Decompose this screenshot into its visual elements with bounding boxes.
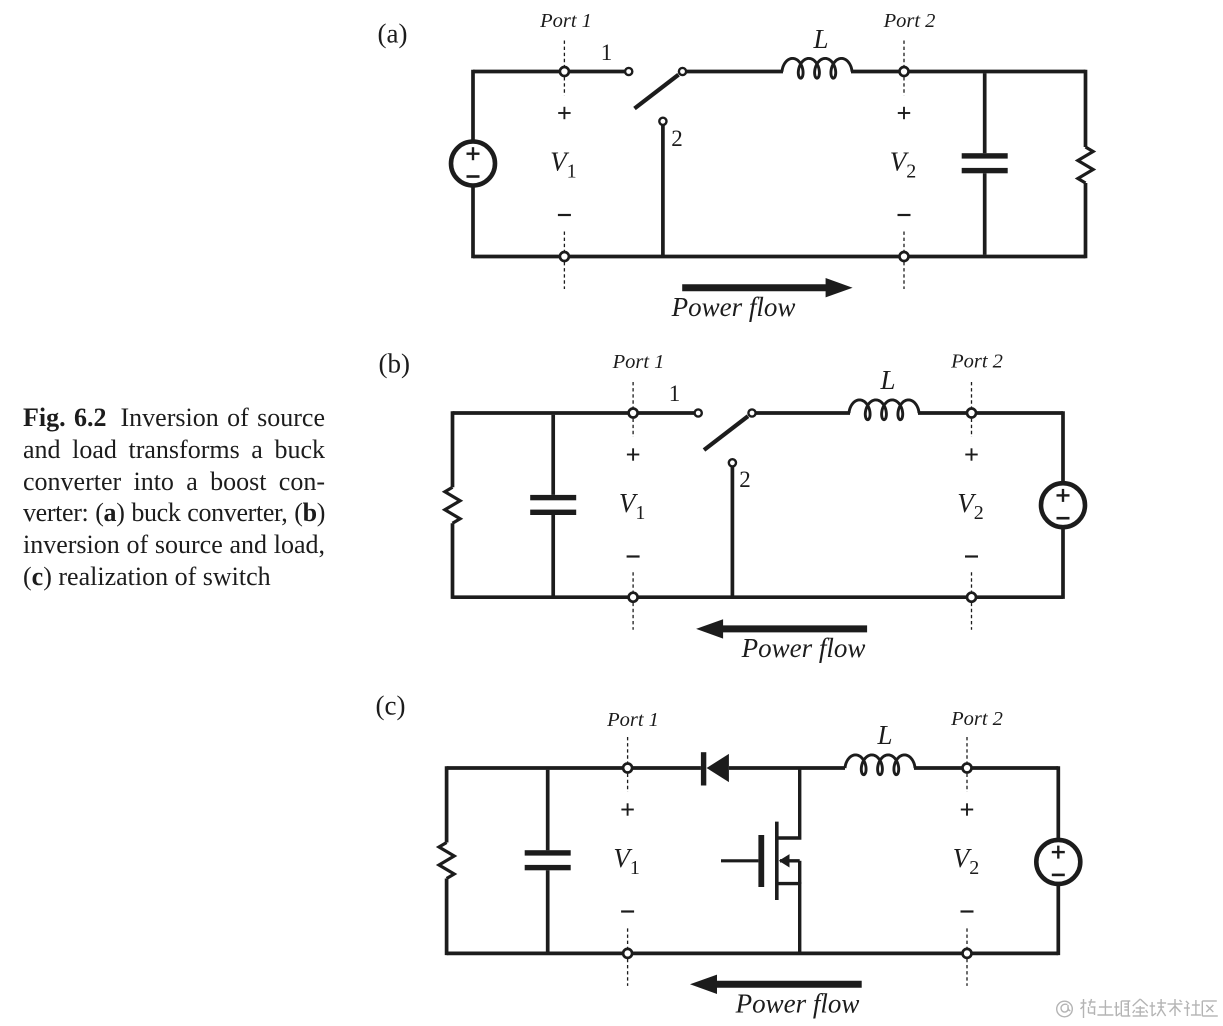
transistor Q MOSFET (circuit c) bbox=[721, 768, 800, 953]
capacitor C (circuit c) bbox=[525, 850, 571, 855]
svg-text:Port 1: Port 1 bbox=[539, 10, 592, 32]
V1 (b) minus bbox=[627, 555, 640, 557]
node Port 2 + terminal (c) bbox=[966, 737, 968, 792]
node Port 1 + terminal (a) bbox=[563, 41, 565, 96]
wire: top rail inductor to load corner (a) bbox=[851, 70, 1086, 74]
capacitor C (circuit a) bbox=[962, 153, 1008, 158]
wire: bottom rail (c) bbox=[447, 952, 1059, 956]
diode D (circuit c) bbox=[701, 752, 706, 785]
wire: capacitor branch upper (a) bbox=[983, 73, 987, 153]
wire: top rail left segment (source to throw-1) bbox=[473, 70, 625, 74]
voltage source V2 (circuit b) bbox=[1041, 483, 1085, 527]
V1 (c) plus bbox=[621, 809, 633, 811]
wire: bottom rail (b) bbox=[453, 595, 1064, 599]
V1 (b) plus bbox=[627, 454, 639, 456]
svg-text:(c): (c) bbox=[376, 691, 406, 721]
wire: right vertical below resistor (a) bbox=[1084, 183, 1088, 258]
svg-text:V1: V1 bbox=[619, 488, 646, 524]
wire: capacitor branch upper (b) bbox=[551, 415, 555, 495]
svg-text:Port 1: Port 1 bbox=[612, 351, 665, 373]
wire: diode to inductor (c) bbox=[729, 766, 845, 770]
svg-text:(a): (a) bbox=[378, 19, 408, 49]
V1 (c) minus bbox=[621, 910, 634, 912]
wire: throw-2 down to bottom rail bbox=[661, 125, 665, 257]
wire: capacitor branch lower (a) bbox=[983, 173, 987, 255]
node Port 2 - terminal (a) bbox=[903, 232, 905, 290]
wire: left vertical above resistor (c) bbox=[445, 766, 449, 842]
switch SPDT (circuit b) throw-1 contact bbox=[695, 409, 702, 416]
switch SPDT (circuit a) pivot contact bbox=[679, 68, 686, 75]
svg-text:Power flow: Power flow bbox=[741, 633, 866, 663]
inductor L (circuit c) bbox=[845, 755, 915, 775]
node Port 1 - terminal (c) bbox=[627, 928, 629, 986]
wire: right vertical above source (b) bbox=[1061, 411, 1065, 483]
wire: right vertical below source (b) bbox=[1061, 527, 1065, 599]
power flow arrow (b) bbox=[719, 625, 867, 632]
power flow arrow (c) bbox=[713, 981, 862, 988]
wire: bottom rail bbox=[473, 255, 1086, 259]
node Port 1 + terminal (c) bbox=[627, 737, 629, 792]
wire: left vertical below resistor (b) bbox=[451, 523, 455, 599]
node Port 2 + terminal (a) bbox=[903, 41, 905, 96]
svg-text:2: 2 bbox=[739, 467, 751, 492]
svg-text:V1: V1 bbox=[613, 843, 640, 879]
wire: right vertical below source (c) bbox=[1056, 883, 1060, 955]
node Port 2 - terminal (c) bbox=[966, 928, 968, 986]
switch SPDT (circuit a) throw-1 contact bbox=[625, 68, 632, 75]
node Port 2 + terminal (b) bbox=[971, 382, 973, 437]
V2 (b) minus bbox=[965, 555, 978, 557]
svg-text:V2: V2 bbox=[890, 147, 917, 183]
node Port 1 - terminal (a) bbox=[563, 232, 565, 290]
inductor L (circuit a) bbox=[782, 58, 852, 78]
node Port 1 - terminal (b) bbox=[632, 572, 634, 630]
svg-text:L: L bbox=[879, 365, 895, 395]
V2 (a) minus bbox=[898, 214, 911, 216]
wire: top rail left segment (b) bbox=[453, 411, 695, 415]
switch SPDT (circuit b) throw-2 contact bbox=[729, 459, 736, 466]
wire: inductor to right corner (c) bbox=[914, 766, 1058, 770]
wire: throw-2 down to bottom rail (b) bbox=[731, 466, 735, 597]
wire: top rail inductor to right corner (b) bbox=[918, 411, 1063, 415]
node Port 1 + terminal (b) bbox=[632, 382, 634, 437]
V2 (b) plus bbox=[965, 454, 977, 456]
resistor R load (circuit a) bbox=[1078, 147, 1093, 183]
svg-text:V2: V2 bbox=[953, 843, 980, 879]
V2 (c) plus bbox=[961, 809, 973, 811]
svg-text:1: 1 bbox=[601, 40, 613, 65]
svg-text:L: L bbox=[876, 720, 892, 750]
wire: capacitor branch lower (b) bbox=[551, 515, 555, 596]
wire: left vertical below resistor (c) bbox=[445, 879, 449, 956]
svg-text:Port 1: Port 1 bbox=[606, 709, 659, 731]
svg-text:V2: V2 bbox=[957, 488, 984, 524]
svg-text:(b): (b) bbox=[379, 349, 410, 379]
wire: left vertical below source bbox=[471, 185, 475, 258]
svg-text:Power flow: Power flow bbox=[671, 292, 796, 322]
switch SPDT (circuit b) pivot contact bbox=[748, 409, 755, 416]
svg-text:L: L bbox=[812, 24, 828, 54]
resistor R load (circuit b) bbox=[445, 487, 460, 523]
resistor R load (circuit c) bbox=[439, 843, 454, 879]
wire: right vertical above source (c) bbox=[1056, 766, 1060, 840]
wire: top rail pivot to inductor (b) bbox=[756, 411, 851, 415]
inductor L (circuit b) bbox=[849, 400, 919, 420]
wire: right vertical above resistor (a) bbox=[1084, 70, 1088, 147]
V2 (a) plus bbox=[898, 112, 910, 114]
svg-text:Power flow: Power flow bbox=[735, 989, 860, 1019]
wire: top rail pivot to inductor (a) bbox=[686, 70, 783, 74]
wire: top rail to diode (c) bbox=[447, 766, 701, 770]
wire: left vertical above source bbox=[471, 70, 475, 142]
power flow arrow (a) bbox=[682, 284, 829, 291]
svg-text:2: 2 bbox=[671, 126, 683, 151]
voltage source V2 (circuit c) bbox=[1036, 840, 1080, 884]
V1 (a) plus bbox=[558, 112, 570, 114]
capacitor C (circuit b) bbox=[530, 495, 576, 500]
V1 (a) minus bbox=[558, 214, 571, 216]
svg-text:Port 2: Port 2 bbox=[950, 351, 1003, 373]
watermark bbox=[1057, 999, 1218, 1018]
V2 (c) minus bbox=[961, 910, 974, 912]
switch SPDT (circuit b) arm bbox=[704, 416, 748, 450]
svg-text:1: 1 bbox=[669, 381, 681, 406]
svg-text:V1: V1 bbox=[550, 147, 577, 183]
svg-text:Port 2: Port 2 bbox=[950, 708, 1003, 730]
svg-text:Port 2: Port 2 bbox=[883, 10, 936, 32]
wire: left vertical above resistor (b) bbox=[451, 411, 455, 487]
node Port 2 - terminal (b) bbox=[971, 572, 973, 630]
switch SPDT (circuit a) throw-2 contact bbox=[659, 118, 666, 125]
wire: capacitor branch lower (c) bbox=[546, 870, 550, 951]
wire: capacitor branch upper (c) bbox=[546, 770, 550, 851]
voltage source V1 (circuit a) bbox=[451, 142, 495, 186]
switch SPDT (circuit a) arm bbox=[635, 75, 679, 109]
